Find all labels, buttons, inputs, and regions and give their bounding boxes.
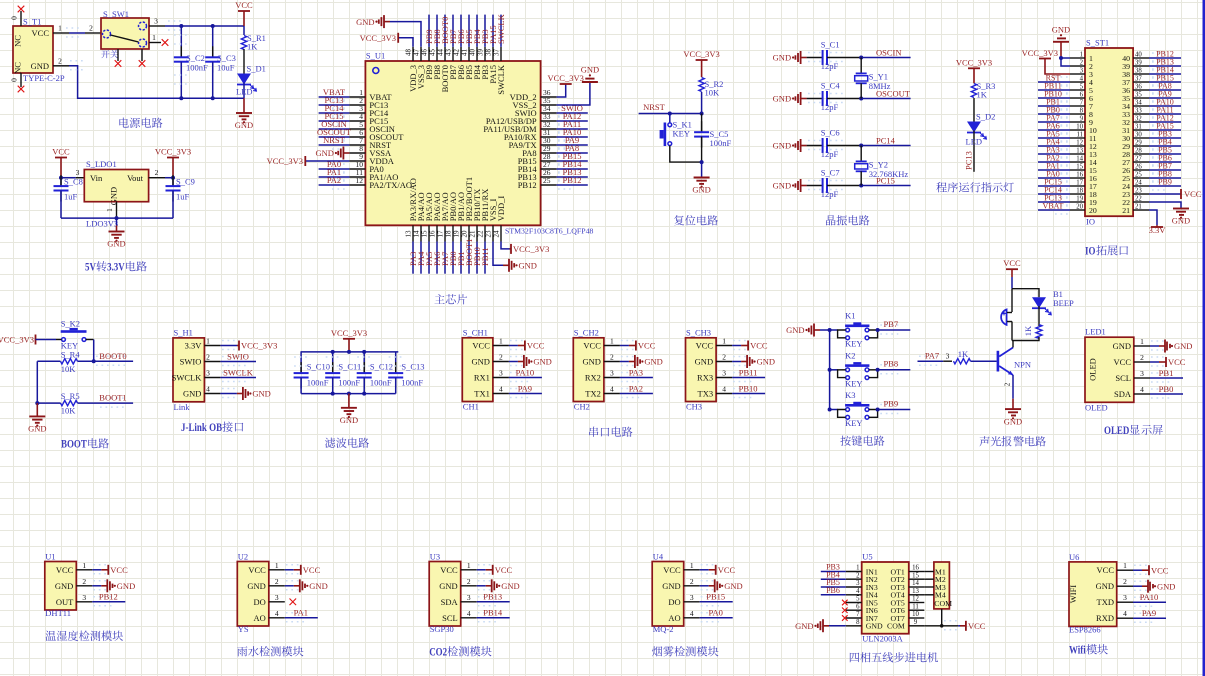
power flag VCC_3V3 above R2	[696, 59, 708, 61]
svg-text:VCC_3V3: VCC_3V3	[548, 73, 584, 83]
wire net PA5 to U1 pin 15	[428, 242, 430, 274]
wire net PB15	[700, 601, 733, 603]
svg-text:VCC: VCC	[248, 565, 266, 575]
motor connector M	[934, 562, 950, 609]
pin 3 Vin of LDO1	[76, 177, 85, 179]
pin 18 PB0/AO of U1	[452, 225, 454, 241]
svg-text:VCC: VCC	[638, 341, 656, 351]
svg-text:GND: GND	[247, 581, 265, 591]
pin 3 RX1 of S_CH1	[493, 377, 509, 379]
svg-text:4: 4	[1123, 609, 1127, 618]
svg-text:21: 21	[1135, 203, 1142, 210]
wire U1 pin1 to VCC	[92, 569, 101, 571]
wire bottom rail of filter	[301, 393, 396, 395]
pin 4 PC15 of U1	[349, 120, 365, 122]
svg-text:19: 19	[1076, 195, 1083, 202]
svg-text:Vin: Vin	[90, 173, 103, 183]
wire net SWIO to U1 pin 34	[557, 112, 588, 114]
no-connect X on SW1 pin 1	[162, 39, 169, 46]
svg-text:VCC_3V3: VCC_3V3	[267, 156, 303, 166]
module U2 YS	[237, 562, 268, 627]
title 晶振电路	[826, 215, 836, 225]
wire net PB8 to ST1 pin 25	[1149, 177, 1181, 179]
pin 11 of ST1 left	[1070, 137, 1085, 139]
pin 28 PB15 of U1	[541, 160, 557, 162]
pin 4 TX2 of S_CH2	[604, 393, 620, 395]
svg-text:9: 9	[1080, 115, 1084, 122]
svg-text:12pF: 12pF	[821, 102, 839, 112]
pin 21 of ST1 right	[1133, 209, 1149, 211]
wire U5 OT4 to M4	[924, 594, 934, 596]
svg-text:42: 42	[452, 49, 460, 57]
svg-text:OSCIN: OSCIN	[876, 47, 902, 57]
svg-text:3: 3	[206, 369, 210, 378]
wire net BOOT0	[94, 360, 133, 362]
transistor Q1 NPN	[997, 351, 1000, 372]
svg-text:1: 1	[275, 561, 279, 570]
svg-text:4: 4	[610, 385, 614, 394]
svg-text:18: 18	[1076, 187, 1083, 194]
svg-text:2: 2	[275, 577, 279, 586]
title 烟雾检测模块	[652, 646, 662, 656]
svg-text:1K: 1K	[1023, 325, 1033, 336]
pin 36 of ST1 right	[1133, 89, 1149, 91]
wire net PA6 to ST1 pin 10	[1038, 129, 1070, 131]
svg-text:S_C2: S_C2	[186, 53, 205, 63]
power flag VCC_3V3 of filter	[343, 338, 355, 340]
svg-text:PA10: PA10	[516, 367, 535, 377]
wire K1 to bottom rail	[670, 146, 702, 163]
svg-text:VCC_3V3: VCC_3V3	[331, 328, 367, 338]
pin 16 PA6/AO of U1	[436, 225, 438, 241]
junction NRST node	[700, 112, 704, 116]
pin 2 VCC of LED1	[1134, 361, 1150, 363]
wire U1 pin47 VSS_3 to GND	[390, 22, 421, 47]
svg-text:13: 13	[404, 230, 412, 238]
svg-text:4: 4	[1080, 75, 1084, 82]
svg-text:GND: GND	[695, 357, 713, 367]
svg-text:PB9: PB9	[1158, 177, 1172, 186]
svg-text:GND: GND	[866, 622, 883, 631]
svg-text:PA9: PA9	[518, 383, 532, 393]
ground GND at U1 pin 8 VSSA	[343, 152, 349, 154]
capacitor S_C7 12pF	[807, 185, 823, 187]
pin 2 GND of U4	[684, 585, 700, 587]
title 电源电路	[119, 118, 128, 128]
capacitor C2 100nF	[180, 26, 182, 57]
svg-text:6: 6	[856, 604, 860, 611]
svg-text:GND: GND	[662, 581, 680, 591]
wire net PA11 to U1 pin 32	[557, 128, 588, 130]
wire U3 pin2 to GND	[477, 585, 486, 587]
wire net VBAT to U1 pin 1	[319, 96, 350, 98]
title 复位电路	[674, 215, 684, 225]
pin 34 SWIO of U1	[541, 112, 557, 114]
title 雨水检测模块	[237, 646, 247, 656]
wire emitter to GND	[1012, 375, 1014, 399]
connector T1 TYPE-C-2P	[13, 26, 53, 73]
svg-text:GND: GND	[1096, 581, 1114, 591]
svg-text:VCC: VCC	[750, 341, 768, 351]
svg-text:AO: AO	[668, 613, 680, 623]
svg-text:SDA: SDA	[1114, 389, 1132, 399]
power flag VCC_3V3 above pin36	[560, 83, 572, 85]
pin 41 PB5 of U1	[468, 47, 470, 61]
svg-text:IO: IO	[1086, 217, 1095, 227]
svg-text:3.3V: 3.3V	[1149, 225, 1167, 235]
wire U5 OT3 to M3	[924, 586, 934, 588]
svg-text:GND: GND	[252, 389, 270, 399]
pin 19 of ST1 left	[1070, 201, 1085, 203]
wire net PB15 to ST1 pin 37	[1149, 81, 1181, 83]
svg-text:22: 22	[1135, 195, 1142, 202]
svg-text:GND: GND	[773, 181, 791, 191]
wire bus to K1	[830, 329, 838, 331]
resistor R1 1K	[243, 26, 245, 35]
svg-text:14: 14	[1076, 155, 1083, 162]
svg-text:100nF: 100nF	[401, 377, 423, 387]
wire top rail of filter	[301, 351, 399, 353]
wire net PA8 to ST1 pin 36	[1149, 89, 1181, 91]
pin 12 of ST1 left	[1070, 145, 1085, 147]
svg-text:VDD_I: VDD_I	[496, 196, 506, 222]
svg-text:14: 14	[412, 230, 420, 238]
crystal S_Y1	[860, 58, 862, 74]
svg-text:VCC: VCC	[1168, 357, 1186, 367]
pin 2 IN2 of U5	[846, 578, 862, 580]
svg-text:16: 16	[1076, 171, 1083, 178]
pin 37 SWCLK of U1	[500, 47, 502, 61]
pin 40 PB4 of U1	[476, 47, 478, 61]
ground GND of key circuit	[814, 329, 820, 331]
ground GND right of S_CH3	[741, 361, 747, 363]
pin 14 of ST1 left	[1070, 161, 1085, 163]
svg-text:S_C6: S_C6	[821, 127, 840, 137]
svg-text:48: 48	[404, 49, 412, 57]
svg-text:100nF: 100nF	[370, 377, 392, 387]
power flag VCC_3V3	[167, 157, 179, 159]
svg-text:VCC: VCC	[1184, 189, 1202, 199]
svg-text:COM: COM	[934, 599, 952, 608]
svg-text:3: 3	[275, 593, 279, 602]
svg-text:2: 2	[1140, 353, 1144, 362]
pin 29 PA8 of U1	[541, 152, 557, 154]
ground GND of LDO circuit	[116, 218, 118, 225]
svg-text:44: 44	[436, 49, 444, 57]
power VCC right of S_CH2	[629, 345, 636, 347]
svg-text:GND: GND	[644, 357, 662, 367]
svg-text:PA3: PA3	[629, 367, 643, 377]
pin 19 PB1/AO of U1	[460, 225, 462, 241]
svg-text:21: 21	[468, 230, 476, 238]
svg-text:38: 38	[484, 49, 492, 57]
capacitor S_C6 12pF	[807, 145, 823, 147]
wire net PA3 to U1 pin 13	[412, 242, 414, 274]
svg-text:2: 2	[89, 24, 93, 33]
junction dots on top rail	[331, 350, 335, 354]
pin 17 PA7/AO of U1	[444, 225, 446, 241]
pin 38 of ST1 right	[1133, 73, 1149, 75]
pin 1 IN1 of U5	[846, 571, 862, 573]
svg-text:3: 3	[722, 369, 726, 378]
svg-text:S_CH1: S_CH1	[463, 327, 488, 337]
wire net PB10 to ST1 pin 6	[1038, 97, 1070, 99]
power flag 3.3V	[1156, 225, 1158, 227]
ground GND of reset circuit	[701, 162, 703, 177]
pin 10 of ST1 left	[1070, 129, 1085, 131]
svg-text:STM32F103C8T6_LQFP48: STM32F103C8T6_LQFP48	[505, 227, 593, 236]
wire U2 pin1 to VCC	[285, 569, 294, 571]
svg-text:VCC: VCC	[696, 341, 714, 351]
wire bus to K2	[830, 369, 838, 371]
junction at PC15	[859, 184, 863, 188]
wire U4 pin1 to VCC	[700, 569, 709, 571]
pin 30 of ST1 right	[1133, 137, 1149, 139]
svg-text:S_D1: S_D1	[247, 64, 266, 74]
svg-text:GND: GND	[1174, 341, 1192, 351]
svg-text:VCC: VCC	[1097, 565, 1115, 575]
wire net VBAT to ST1 pin 20	[1038, 209, 1070, 211]
svg-text:11: 11	[912, 604, 919, 611]
capacitor S_C1 12pF	[807, 57, 823, 59]
wire U1 pin2 to GND	[92, 585, 101, 587]
svg-text:PB1: PB1	[1159, 368, 1174, 378]
svg-text:DO: DO	[254, 597, 266, 607]
ground GND right of pin23	[503, 264, 509, 266]
pin 27 PB14 of U1	[541, 168, 557, 170]
svg-text:12: 12	[356, 176, 364, 185]
pin 1 VCC of U1	[76, 569, 92, 571]
svg-text:1: 1	[610, 337, 614, 346]
wire GND to ST1 pin2	[1061, 58, 1070, 66]
svg-text:37: 37	[492, 49, 500, 57]
svg-text:K3: K3	[845, 390, 855, 400]
svg-text:VCC: VCC	[495, 565, 513, 575]
svg-text:35: 35	[1135, 91, 1142, 98]
svg-text:8: 8	[1080, 107, 1084, 114]
wire net PB5 to ST1 pin 28	[1149, 153, 1181, 155]
svg-text:TX2: TX2	[585, 389, 601, 399]
wire U1 pin24 VDD_I to VCC_3V3	[501, 242, 510, 249]
power VCC_3V3 at U1 pin 9 VDDA	[305, 160, 349, 162]
capacitor C3 10uF	[212, 26, 214, 57]
svg-text:GND: GND	[107, 239, 125, 249]
pin 1 VBAT of U1	[349, 96, 365, 98]
wire net PB14 to U1 pin 27	[557, 168, 588, 170]
svg-text:GND: GND	[471, 357, 489, 367]
wire net PB11	[732, 377, 765, 379]
svg-text:Vout: Vout	[127, 173, 144, 183]
svg-text:14: 14	[912, 580, 919, 587]
svg-text:VCC: VCC	[303, 565, 321, 575]
svg-text:46: 46	[420, 49, 428, 57]
svg-text:VCC_3V3: VCC_3V3	[0, 334, 34, 344]
power VCC right of U5	[960, 625, 966, 627]
power VCC right of LED1	[1159, 361, 1166, 363]
ground GND left of S_C6	[801, 145, 807, 147]
wire net PA8 to U1 pin 29	[557, 152, 588, 154]
pin 20 PB2/BOOT1 of U1	[468, 225, 470, 241]
svg-text:S_SW1: S_SW1	[103, 9, 129, 19]
wire net PB7 to U1 pin 43	[452, 15, 454, 47]
svg-text:S_K2: S_K2	[61, 319, 80, 329]
title 声光报警电路	[979, 436, 989, 446]
wire GND to ST1 pin1	[1061, 57, 1070, 59]
wire net PB12 to ST1 pin 40	[1149, 57, 1181, 59]
svg-text:GND: GND	[533, 357, 551, 367]
wire net PA10 to ST1 pin 34	[1149, 105, 1181, 107]
svg-text:GND: GND	[28, 424, 46, 434]
svg-text:PA2: PA2	[629, 383, 643, 393]
svg-text:32.768KHz: 32.768KHz	[869, 169, 909, 179]
svg-text:8: 8	[856, 619, 860, 626]
wire net PA11 to ST1 pin 33	[1149, 113, 1181, 115]
header ST1 IO expansion	[1085, 48, 1133, 216]
pin 31 of ST1 right	[1133, 129, 1149, 131]
wire U1 pin48 VDD_3 to VCC_3V3	[398, 38, 413, 47]
wire net BOOT1 to U1 pin 20	[468, 242, 470, 274]
svg-text:NC: NC	[13, 62, 23, 74]
push button K2 KEY	[62, 338, 66, 342]
wire net PB8 to U1 pin 45	[436, 15, 438, 47]
pin 3 of SW1	[149, 25, 165, 27]
svg-text:2: 2	[1080, 59, 1084, 66]
pin 12 PA2/TX/AO of U1	[349, 184, 365, 186]
pin 3 DO of U4	[684, 601, 700, 603]
svg-text:GND: GND	[356, 17, 374, 27]
wire net PA2	[620, 393, 653, 395]
pin 35 VSS_2 of U1	[541, 104, 557, 106]
svg-text:5: 5	[1080, 83, 1084, 90]
ground GND right of U2 pin2	[294, 585, 300, 587]
svg-text:RXD: RXD	[1096, 613, 1114, 623]
pin 1 GND of LED1	[1134, 345, 1150, 347]
pin 3 IN3 of U5	[846, 586, 862, 588]
wire LED1 pin2 to VCC	[1150, 361, 1159, 363]
module U3 SGP30	[429, 562, 461, 627]
svg-text:VCC: VCC	[1151, 565, 1169, 575]
svg-text:U4: U4	[653, 552, 664, 562]
svg-text:PA10: PA10	[1140, 592, 1159, 602]
wire net PB14 to ST1 pin 38	[1149, 73, 1181, 75]
power VCC right of S_CH3	[741, 345, 748, 347]
pin 13 OT4 of U5	[909, 594, 925, 596]
svg-text:3: 3	[1080, 67, 1084, 74]
pin 42 PB6 of U1	[460, 47, 462, 61]
wire key bus	[820, 329, 830, 331]
svg-text:1: 1	[722, 337, 726, 346]
pin 2 GND of U6	[1117, 585, 1133, 587]
svg-text:VCC_3V3: VCC_3V3	[241, 341, 277, 351]
pin 25 PB12 of U1	[541, 184, 557, 186]
svg-text:2: 2	[206, 353, 210, 362]
pin 14 PA4/AO of U1	[420, 225, 422, 241]
ground GND right of U1 pin2	[101, 585, 107, 587]
title 按键电路	[840, 436, 851, 446]
power VCC right of U6 pin1	[1142, 569, 1149, 571]
svg-text:GND: GND	[309, 581, 327, 591]
svg-text:GND: GND	[519, 261, 537, 271]
pin 25 of ST1 right	[1133, 177, 1149, 179]
ground GND left of S_C4	[801, 98, 807, 100]
driver U5 ULN2003A	[862, 562, 909, 634]
sheet border right edge	[1203, 0, 1205, 676]
wire NRST net	[639, 113, 702, 115]
header H1 J-Link OB	[173, 338, 204, 402]
svg-text:12pF: 12pF	[821, 189, 839, 199]
pin 3 OUT of U1	[76, 601, 92, 603]
svg-text:SWCLK: SWCLK	[496, 64, 506, 95]
svg-text:GND: GND	[1113, 341, 1131, 351]
svg-text:1: 1	[206, 337, 210, 346]
pin 6 OSCOUT of U1	[349, 136, 365, 138]
svg-text:SCL: SCL	[442, 613, 458, 623]
svg-text:LDO3V3: LDO3V3	[86, 219, 118, 229]
svg-text:MQ-2: MQ-2	[653, 624, 674, 634]
svg-text:VBAT: VBAT	[1043, 201, 1064, 210]
header S_CH3 serial	[686, 338, 717, 402]
svg-text:U3: U3	[430, 552, 440, 562]
pin 33 PA12/USB/DP of U1	[541, 120, 557, 122]
svg-text:4: 4	[467, 609, 471, 618]
svg-text:OUT: OUT	[56, 597, 74, 607]
wire net PB15 to U1 pin 28	[557, 160, 588, 162]
svg-text:BOOT0: BOOT0	[99, 351, 126, 361]
power flag VCC	[55, 157, 67, 159]
pin 30 PA9/TX of U1	[541, 144, 557, 146]
svg-text:0: 0	[10, 78, 19, 82]
svg-text:2: 2	[58, 56, 62, 65]
wire net PC13 to U1 pin 2	[319, 104, 350, 106]
svg-text:S_T1: S_T1	[23, 17, 41, 27]
svg-text:2: 2	[610, 353, 614, 362]
pin 9 of ST1 left	[1070, 121, 1085, 123]
pin 3 PC14 of U1	[349, 112, 365, 114]
capacitor C9 1uF	[172, 178, 174, 186]
svg-text:1: 1	[690, 561, 694, 570]
svg-text:TYPE-C-2P: TYPE-C-2P	[23, 73, 65, 83]
svg-text:SWIO: SWIO	[227, 351, 249, 361]
pin 1 VCC of T1	[53, 32, 69, 34]
pin 4 IN4 of U5	[846, 594, 862, 596]
svg-text:GND: GND	[340, 415, 358, 425]
svg-text:1: 1	[467, 561, 471, 570]
pin 34 of ST1 right	[1133, 105, 1149, 107]
ground GND right of U6 pin2	[1142, 585, 1148, 587]
svg-text:S_C3: S_C3	[217, 53, 236, 63]
no-connect X at U2 pin3	[290, 599, 297, 606]
pin 4 AO of U2	[269, 617, 285, 619]
svg-text:30: 30	[1135, 131, 1142, 138]
pin 11 PA1/AO of U1	[349, 176, 365, 178]
junction dots on GND rail	[179, 96, 183, 100]
power flag VCC of alarm	[1006, 268, 1018, 270]
pin 2 SWIO of H1	[204, 361, 220, 363]
svg-text:VCC: VCC	[583, 341, 601, 351]
svg-text:WIFI: WIFI	[1068, 585, 1078, 604]
title 四相五线步进电机	[850, 653, 859, 663]
svg-text:GND: GND	[757, 357, 775, 367]
wire K1 to net PB7	[878, 329, 911, 331]
wire net PB4 to ST1 pin 29	[1149, 145, 1181, 147]
wire S_CH3 pin2 to GND	[732, 361, 741, 363]
svg-text:3: 3	[467, 593, 471, 602]
pin 3 of ST1 left	[1070, 73, 1085, 75]
svg-text:K2: K2	[845, 350, 855, 360]
svg-text:VCC_3V3: VCC_3V3	[513, 244, 549, 254]
pin 1 of SW1	[149, 42, 161, 44]
capacitor S_C10 100nF	[300, 352, 302, 373]
